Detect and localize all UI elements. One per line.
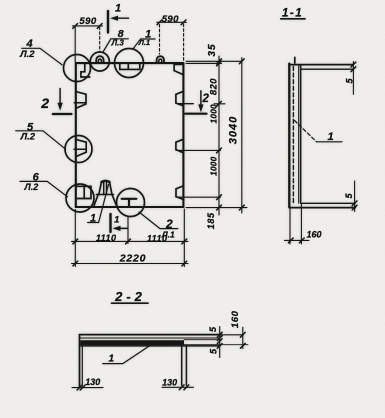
svg-text:Л.2: Л.2 — [24, 182, 39, 192]
callout circle 5 — [65, 136, 92, 163]
svg-text:2-2: 2-2 — [114, 289, 146, 304]
svg-text:1110: 1110 — [96, 233, 117, 243]
top joint notch (detail 1) — [120, 63, 140, 69]
callout circle 8 (loop P1) — [90, 52, 109, 71]
right edge notch 3 — [176, 186, 183, 200]
left leg — [79, 336, 81, 388]
top flange — [289, 64, 353, 66]
lifting loop P1 — [96, 56, 103, 63]
dark band extensions — [184, 340, 248, 345]
dim 3040 line — [241, 58, 243, 214]
callout circle 2 — [117, 189, 145, 217]
top-left corner step detail — [81, 63, 90, 77]
label 1/L1 — [133, 39, 155, 49]
svg-text:185: 185 — [206, 212, 216, 229]
section 2 marker left — [59, 89, 61, 104]
svg-text:1: 1 — [109, 353, 115, 364]
right leg — [181, 346, 183, 385]
svg-text:4: 4 — [25, 38, 32, 50]
wall lines — [288, 64, 290, 208]
leader 1 in section — [295, 121, 317, 142]
callout circle 4 — [64, 55, 91, 82]
label 8/L3 — [103, 39, 128, 52]
svg-text:35: 35 — [207, 43, 218, 56]
dim 160 bottom — [289, 208, 291, 244]
dim 590 right — [159, 25, 161, 55]
dim 160 right — [242, 327, 244, 346]
right edge notch 2 — [176, 139, 184, 153]
bottom bump outer — [94, 195, 118, 208]
label 6/L2 — [20, 181, 68, 196]
panel right edge — [182, 63, 184, 207]
svg-text:130: 130 — [85, 377, 100, 387]
svg-text:2220: 2220 — [119, 253, 147, 265]
svg-text:590: 590 — [162, 14, 179, 25]
left edge notch 1 — [76, 92, 86, 109]
svg-text:Л.2: Л.2 — [19, 49, 35, 60]
label 5/L2 — [16, 131, 66, 149]
svg-text:1: 1 — [90, 213, 96, 225]
svg-text:1: 1 — [327, 131, 333, 143]
svg-text:1: 1 — [115, 3, 121, 15]
left edge notch 2 — [76, 139, 86, 156]
panel top edge — [76, 62, 184, 64]
label 2/L1 leader — [139, 212, 178, 229]
dim 130 left — [72, 387, 103, 389]
svg-text:160: 160 — [230, 310, 241, 328]
dim 130 right — [162, 386, 194, 388]
leader 1 in 2-2 — [103, 346, 150, 364]
svg-text:1000: 1000 — [210, 156, 219, 176]
slab dark band — [81, 340, 185, 345]
svg-text:1110: 1110 — [147, 234, 168, 244]
callout circle 1 — [115, 49, 144, 78]
right 5/5 dims — [219, 327, 221, 358]
right edge notch 1 — [176, 91, 184, 106]
callout circle 6 — [66, 184, 94, 212]
slab top line — [79, 334, 221, 336]
bottom flange — [301, 202, 355, 204]
lifting loop P2 — [157, 56, 164, 62]
svg-text:130: 130 — [162, 378, 177, 388]
bottom bump upper tier — [99, 181, 112, 194]
bottom dim extensions — [74, 210, 76, 267]
slab bottom line — [79, 345, 220, 347]
title underline — [112, 302, 149, 304]
label 4/L2 — [22, 48, 62, 65]
svg-text:Л.1: Л.1 — [138, 38, 150, 47]
top-right corner notch — [174, 64, 183, 74]
left bottom key (detail 6) — [76, 186, 91, 198]
dim 590 left — [74, 26, 76, 62]
svg-text:590: 590 — [79, 16, 96, 27]
svg-text:1: 1 — [114, 214, 119, 225]
svg-text:Л.2: Л.2 — [20, 131, 36, 142]
title underline — [281, 18, 305, 20]
section 2 marker right — [200, 91, 202, 105]
svg-text:3040: 3040 — [228, 116, 240, 144]
svg-text:1-1: 1-1 — [282, 7, 303, 19]
dim line 1110+1110 — [72, 240, 189, 242]
slab line 2 — [79, 337, 220, 339]
section 1 marker top — [107, 11, 109, 33]
right chain dim line — [218, 56, 220, 215]
dim line 2220 — [72, 263, 189, 265]
svg-text:2: 2 — [40, 95, 49, 111]
right chain extensions — [186, 60, 242, 62]
svg-text:160: 160 — [306, 230, 321, 240]
top-left tick — [294, 57, 296, 63]
label 1 bump leader — [88, 185, 109, 223]
section 1 marker bottom — [109, 214, 111, 232]
panel left edge — [75, 63, 77, 207]
dim 5 bottom right — [354, 181, 356, 212]
panel bottom edge — [76, 206, 184, 208]
svg-text:820: 820 — [209, 78, 219, 95]
svg-text:1000: 1000 — [210, 104, 219, 124]
bottom T anchor (detail 2) — [122, 199, 137, 207]
svg-text:Л.3: Л.3 — [111, 39, 125, 48]
dim 5 top right — [352, 62, 354, 95]
